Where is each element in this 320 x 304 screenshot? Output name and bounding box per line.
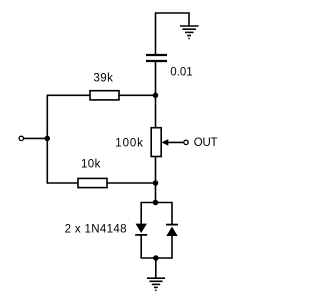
wire ground stem top right [188,12,190,26]
svg-text:39k: 39k [94,73,114,85]
svg-text:OUT: OUT [194,137,218,149]
svg-text:0.01: 0.01 [170,67,192,79]
capacitor C1 [146,55,167,61]
wire 10k left segment [47,182,78,184]
wire left diode branch upper [140,202,142,224]
wire diode bottom rail [141,257,172,259]
wire main vertical: top corner down to capacitor top plate [155,12,157,54]
potentiometer R2 100k body [151,128,161,157]
svg-text:100k: 100k [115,138,144,150]
svg-text:2 x 1N4148: 2 x 1N4148 [65,224,127,236]
diode D1 (cathode down) [135,224,147,235]
ground (top right) [180,26,199,39]
diode D2 (cathode up) [166,225,178,236]
node C junction dot diode rail top [153,200,159,206]
svg-text:10k: 10k [81,159,101,171]
OUT terminal (open circle) [184,140,188,144]
wire left vertical bus [46,95,48,184]
wire 10k right segment [107,182,156,184]
resistor R1 39k [90,91,119,100]
wire top horizontal from main vertical to ground stem [156,12,190,14]
node A junction dot 39k/cap/pot [153,93,159,99]
input terminal (open circle) [19,136,23,140]
wire input to left bus [24,137,48,139]
wire node B to diode network top [155,183,157,203]
wire right diode branch upper [171,202,173,225]
node B junction dot 10k/pot [153,180,159,186]
wire 39k right segment [119,94,156,96]
wire node A to potentiometer top [155,95,157,127]
wire diode top rail [141,202,172,204]
resistor R3 10k [78,178,107,187]
node input junction dot [45,136,51,142]
node D junction dot diode rail bottom [153,255,159,261]
ground (bottom) [147,278,165,290]
wire left diode branch lower [140,235,142,259]
wire potentiometer bottom to 10k rail node [155,157,157,184]
wire 39k left segment [47,94,90,96]
wire bottom ground stem [155,258,157,278]
wire capacitor bottom to node at 39k rail [155,61,157,95]
wire right diode branch lower [171,236,173,259]
potentiometer wiper arrow [162,139,184,146]
